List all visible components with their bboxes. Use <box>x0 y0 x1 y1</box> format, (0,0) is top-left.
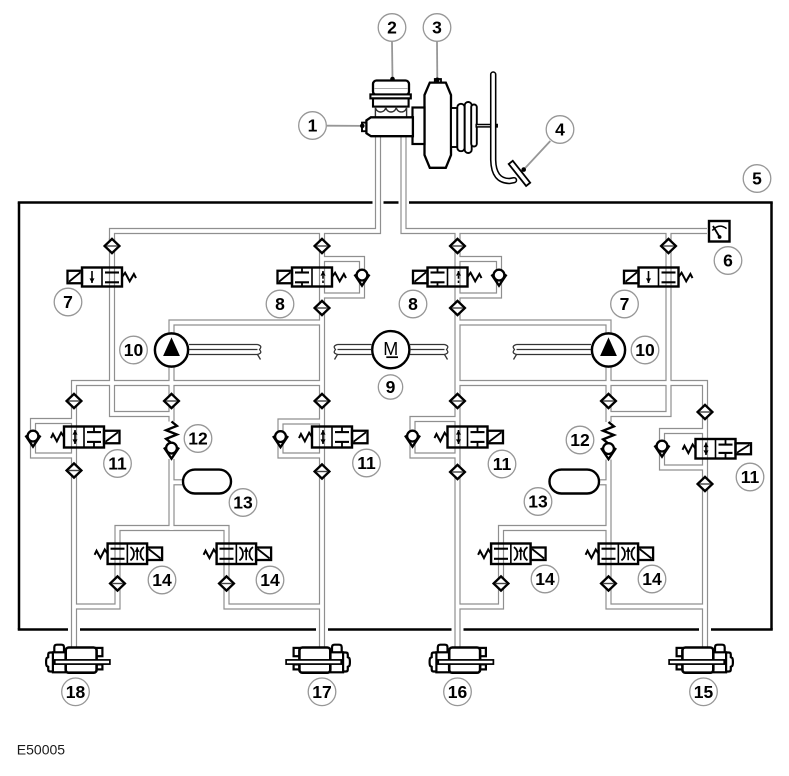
svg-text:8: 8 <box>275 294 285 314</box>
svg-text:5: 5 <box>752 169 762 189</box>
svg-text:11: 11 <box>741 467 760 487</box>
svg-text:14: 14 <box>260 570 280 590</box>
svg-text:10: 10 <box>635 340 655 360</box>
svg-text:16: 16 <box>448 682 468 702</box>
svg-text:18: 18 <box>66 682 86 702</box>
svg-text:2: 2 <box>387 18 397 38</box>
svg-text:11: 11 <box>108 454 127 474</box>
svg-text:17: 17 <box>312 682 331 702</box>
svg-text:15: 15 <box>694 682 714 702</box>
svg-text:4: 4 <box>555 120 565 140</box>
svg-text:12: 12 <box>570 430 590 450</box>
svg-text:14: 14 <box>152 570 172 590</box>
svg-text:M: M <box>383 339 398 359</box>
svg-text:8: 8 <box>408 294 418 314</box>
svg-text:7: 7 <box>63 292 73 312</box>
svg-text:11: 11 <box>493 454 512 474</box>
svg-text:1: 1 <box>308 116 318 136</box>
svg-text:9: 9 <box>386 377 396 397</box>
svg-text:12: 12 <box>188 429 208 449</box>
svg-text:13: 13 <box>528 492 548 512</box>
svg-text:14: 14 <box>642 569 662 589</box>
svg-text:10: 10 <box>124 340 144 360</box>
svg-text:6: 6 <box>723 251 733 271</box>
svg-text:3: 3 <box>432 18 442 38</box>
svg-text:7: 7 <box>620 294 630 314</box>
svg-text:14: 14 <box>535 569 555 589</box>
svg-text:11: 11 <box>357 453 376 473</box>
svg-text:13: 13 <box>233 493 253 513</box>
svg-text:E50005: E50005 <box>17 742 65 758</box>
